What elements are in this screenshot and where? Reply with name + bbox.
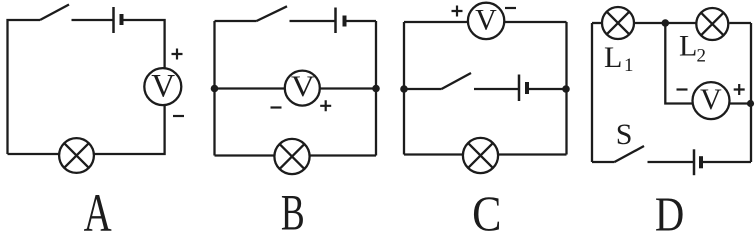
svg-text:S: S [616, 118, 633, 151]
svg-text:V: V [151, 68, 175, 104]
svg-text:C: C [472, 186, 501, 232]
svg-text:L: L [679, 30, 697, 63]
svg-text:D: D [655, 187, 684, 232]
svg-text:V: V [475, 4, 497, 37]
svg-text:L: L [604, 41, 622, 74]
svg-text:A: A [84, 184, 112, 232]
svg-text:2: 2 [697, 46, 707, 67]
svg-text:V: V [291, 69, 315, 102]
svg-text:V: V [700, 83, 722, 116]
svg-text:1: 1 [624, 55, 634, 76]
svg-text:B: B [281, 184, 305, 232]
